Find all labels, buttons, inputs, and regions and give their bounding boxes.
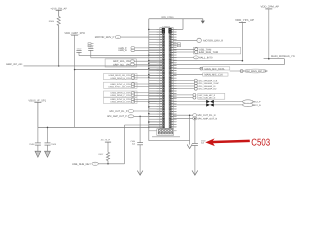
svg-text:VDD_2PM_AP: VDD_2PM_AP [261, 5, 280, 9]
svg-text:USB3_DRV8_C_CON: USB3_DRV8_C_CON [110, 94, 131, 97]
svg-text:R506: R506 [49, 20, 55, 23]
svg-text:MAIN_MIC_CLK: MAIN_MIC_CLK [205, 74, 224, 77]
svg-text:MAIN_MIC_DATA: MAIN_MIC_DATA [205, 68, 225, 71]
svg-text:MIC_SUB_MIC_P: MIC_SUB_MIC_P [199, 94, 216, 97]
svg-text:B2B_CON6: B2B_CON6 [161, 16, 174, 19]
svg-text:HALL_INT0: HALL_INT0 [199, 57, 213, 60]
svg-text:I2S1_SPKAMP_DI: I2S1_SPKAMP_DI [198, 85, 215, 88]
svg-text:C509: C509 [51, 143, 57, 146]
svg-text:JIG_T8_IF: JIG_T8_IF [101, 139, 111, 142]
svg-text:MIC2_N: MIC2_N [253, 104, 261, 107]
svg-text:CN5004: CN5004 [162, 25, 171, 28]
svg-text:USB3_DRV8_B_CON: USB3_DRV8_B_CON [110, 77, 131, 80]
svg-text:I2S1_SPKAMP_DO: I2S1_SPKAMP_DO [198, 88, 216, 91]
svg-text:2u2: 2u2 [201, 142, 204, 145]
svg-text:USB3_DRV8_JIG_CON: USB3_DRV8_JIG_CON [109, 74, 131, 77]
svg-text:VDD_YFS_AP: VDD_YFS_AP [235, 18, 254, 22]
svg-text:GRIP_INT_AP: GRIP_INT_AP [6, 63, 22, 66]
svg-text:GRIP_SDA_1P8: GRIP_SDA_1P8 [113, 60, 131, 63]
svg-text:I2S1_SPKAMP_CLK: I2S1_SPKAMP_CLK [198, 80, 218, 83]
svg-text:C503: C503 [251, 138, 270, 149]
svg-text:MOTOR_DRV_R: MOTOR_DRV_R [203, 40, 223, 43]
svg-text:SPK_AMP_OUT_N: SPK_AMP_OUT_N [197, 117, 217, 120]
svg-text:EAR_SUB_THM: EAR_SUB_THM [199, 51, 218, 54]
svg-text:C508: C508 [29, 143, 35, 146]
svg-text:USB_SUB_DET: USB_SUB_DET [72, 163, 91, 166]
svg-text:MAIN_MICBIAS_YN: MAIN_MICBIAS_YN [271, 55, 295, 58]
svg-text:MOTOR_DRV_P: MOTOR_DRV_P [95, 36, 115, 39]
svg-text:MIC2_P: MIC2_P [253, 101, 261, 104]
svg-text:SPK_OUT_FIL_P: SPK_OUT_FIL_P [109, 110, 128, 113]
svg-text:USB3_SYNC_JIG_CON: USB3_SYNC_JIG_CON [108, 85, 131, 88]
svg-text:C512: C512 [77, 47, 82, 50]
svg-text:MIC_SUB_MIC_N: MIC_SUB_MIC_N [199, 97, 216, 100]
svg-text:VDD_GRIP_2PH: VDD_GRIP_2PH [64, 32, 85, 35]
svg-text:2u2: 2u2 [132, 143, 135, 146]
svg-text:UWB_N: UWB_N [118, 49, 127, 52]
svg-text:SPK_OUT_FIL_N: SPK_OUT_FIL_N [197, 114, 216, 117]
svg-text:I2S1_SPKAMP_SYNC: I2S1_SPKAMP_SYNC [198, 82, 219, 85]
svg-text:I2S0_MAIN_MIC_FB: I2S0_MAIN_MIC_FB [245, 70, 267, 73]
svg-text:SPK_AMP_OUT_P: SPK_AMP_OUT_P [107, 115, 127, 118]
svg-text:USB3_DRV8_D_CON: USB3_DRV8_D_CON [110, 101, 131, 104]
